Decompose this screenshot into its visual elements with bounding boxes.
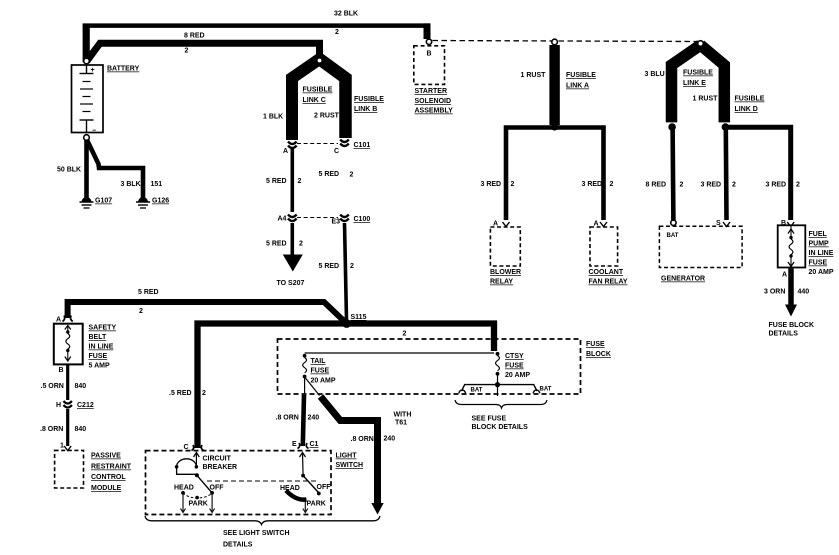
wire 50 BLK to ground G107 [57, 140, 87, 198]
switch blade right (HEAD position) [280, 453, 331, 513]
svg-text:S115: S115 [351, 314, 367, 321]
tail fuse [303, 354, 336, 385]
wire 3 RED to blower relay [481, 181, 515, 188]
svg-text:2: 2 [732, 182, 736, 189]
svg-text:2 RUST: 2 RUST [314, 113, 340, 120]
svg-text:1 RUST: 1 RUST [693, 96, 719, 103]
svg-text:8 RED: 8 RED [646, 182, 667, 189]
svg-text:BELT: BELT [89, 334, 107, 341]
svg-text:WITH: WITH [394, 412, 412, 419]
wire 5 RED from A to A4 [266, 149, 302, 212]
circuit breaker [175, 453, 237, 478]
generator [659, 220, 742, 283]
svg-text:LINK E: LINK E [683, 80, 706, 87]
svg-text:FUSE: FUSE [89, 353, 108, 360]
svg-text:20 AMP: 20 AMP [505, 372, 530, 379]
svg-text:2: 2 [610, 181, 614, 188]
node apex fusible links E/D [698, 41, 704, 47]
svg-text:2: 2 [680, 182, 684, 189]
svg-text:FUSE: FUSE [311, 368, 330, 375]
node apex fusible links C/B [317, 58, 322, 63]
svg-text:5 AMP: 5 AMP [89, 363, 110, 370]
svg-text:RESTRAINT: RESTRAINT [91, 464, 132, 471]
svg-text:B: B [427, 51, 432, 58]
svg-text:840: 840 [75, 426, 87, 433]
svg-text:SEE LIGHT SWITCH: SEE LIGHT SWITCH [223, 530, 290, 537]
wire 8 RED to generator BAT [646, 127, 684, 220]
svg-text:5 RED: 5 RED [266, 178, 287, 185]
svg-text:PARK: PARK [189, 501, 208, 508]
svg-text:+: + [91, 67, 95, 74]
wire 3 RED to fuel pump fuse [725, 127, 800, 220]
svg-text:CIRCUIT: CIRCUIT [203, 456, 232, 463]
svg-text:STARTER: STARTER [415, 88, 448, 95]
svg-text:H: H [56, 402, 61, 409]
wire bus to relays [506, 128, 604, 221]
fusible link D (right leg, 1 RUST) [693, 45, 765, 122]
blower relay [490, 221, 521, 286]
ctsy fuse [496, 352, 531, 396]
wire with T61 .8 ORN 240 [305, 377, 412, 515]
svg-text:−: − [92, 128, 96, 135]
svg-text:1: 1 [60, 443, 64, 450]
svg-text:2: 2 [202, 390, 206, 397]
svg-text:C: C [184, 444, 189, 451]
terminal E C1 light switch [292, 441, 319, 448]
svg-text:2: 2 [350, 172, 354, 179]
wire 5 RED bus to S115 [68, 289, 347, 324]
svg-text:G107: G107 [95, 198, 112, 205]
svg-text:32 BLK: 32 BLK [334, 11, 358, 18]
svg-text:240: 240 [384, 436, 396, 443]
svg-text:.5 ORN: .5 ORN [41, 383, 64, 390]
svg-text:E: E [292, 441, 297, 448]
svg-text:50 BLK: 50 BLK [57, 167, 81, 174]
svg-text:5 RED: 5 RED [266, 241, 287, 248]
svg-text:IN LINE: IN LINE [809, 250, 834, 257]
svg-text:LIGHT: LIGHT [336, 453, 358, 460]
svg-text:840: 840 [75, 383, 87, 390]
svg-text:A: A [283, 148, 288, 155]
svg-text:FUSE: FUSE [586, 341, 605, 348]
svg-text:2: 2 [298, 178, 302, 185]
light switch box [146, 451, 364, 515]
fuse block [278, 339, 611, 394]
svg-text:SOLENOID: SOLENOID [415, 98, 452, 105]
svg-text:PUMP: PUMP [809, 241, 830, 248]
wire 5 RED A4 to arrow [266, 223, 303, 256]
svg-text:E3: E3 [332, 219, 341, 226]
svg-text:RELAY: RELAY [490, 279, 513, 286]
passive restraint control module [55, 443, 132, 493]
svg-text:3 BLU: 3 BLU [645, 71, 665, 78]
dashed net starter to fusible links A and E [433, 41, 698, 42]
svg-text:C212: C212 [77, 402, 94, 409]
svg-text:BLOCK: BLOCK [586, 351, 611, 358]
svg-text:FUSE: FUSE [505, 363, 524, 370]
wire bus S115 to ctsy fuse and light switch [169, 324, 494, 451]
svg-text:DETAILS: DETAILS [223, 542, 253, 549]
wire 3 ORN 440 to fuse block details [764, 269, 814, 338]
node starter solenoid B terminal [426, 39, 431, 44]
wire 5 RED C100 to S115 [319, 171, 355, 320]
fusible link A [521, 39, 597, 125]
svg-text:C100: C100 [354, 216, 371, 223]
wire .5 ORN 840 [41, 365, 87, 401]
coolant fan relay [589, 221, 628, 286]
junction S115 [342, 314, 366, 328]
svg-text:PARK: PARK [307, 501, 326, 508]
svg-text:2: 2 [335, 29, 339, 36]
brace see light switch details [145, 516, 380, 549]
svg-text:IN LINE: IN LINE [89, 344, 114, 351]
svg-text:BATTERY: BATTERY [107, 66, 140, 73]
svg-text:A: A [56, 317, 61, 324]
svg-text:FUSE: FUSE [809, 260, 828, 267]
svg-text:B: B [59, 367, 64, 374]
svg-text:2: 2 [139, 308, 143, 315]
svg-text:1 BLK: 1 BLK [263, 114, 283, 121]
svg-text:FUSIBLE: FUSIBLE [683, 70, 713, 77]
ground G126 [136, 197, 169, 208]
svg-text:LINK C: LINK C [303, 97, 326, 104]
svg-text:2: 2 [403, 331, 407, 338]
node BAT bus junction [495, 382, 500, 387]
ground G107 [80, 197, 113, 208]
svg-text:T61: T61 [395, 420, 407, 427]
svg-text:FUSIBLE: FUSIBLE [354, 96, 384, 103]
fuel pump in line fuse [778, 220, 834, 279]
battery [72, 58, 104, 140]
wire 3 RED to coolant fan relay [582, 181, 614, 188]
svg-text:SEE FUSE: SEE FUSE [472, 416, 507, 423]
svg-text:3 BLK: 3 BLK [121, 181, 141, 188]
node junction below fusible link A [551, 123, 558, 130]
svg-text:HEAD: HEAD [280, 485, 300, 492]
svg-text:240: 240 [308, 415, 320, 422]
svg-text:LINK D: LINK D [735, 106, 758, 113]
wire 3 BLK 151 to ground G126 [87, 140, 162, 198]
svg-text:GENERATOR: GENERATOR [661, 276, 705, 283]
svg-text:G126: G126 [152, 198, 169, 205]
svg-text:5 RED: 5 RED [138, 289, 159, 296]
svg-text:.8 ORN: .8 ORN [40, 426, 63, 433]
svg-text:FUSIBLE: FUSIBLE [735, 96, 765, 103]
node junction below link D [722, 123, 730, 131]
svg-text:FUSIBLE: FUSIBLE [566, 72, 596, 79]
svg-text:CTSY: CTSY [505, 353, 524, 360]
BAT terminals trapezoid [459, 385, 552, 394]
fusible link C (left leg, 1 BLK) [263, 59, 333, 140]
svg-text:MODULE: MODULE [91, 485, 122, 492]
svg-text:HEAD: HEAD [174, 485, 194, 492]
svg-text:2: 2 [299, 241, 303, 248]
svg-text:3 ORN: 3 ORN [764, 289, 785, 296]
svg-text:LINK A: LINK A [566, 83, 589, 90]
wire 32 BLK battery to starter solenoid [83, 11, 431, 63]
svg-text:ASSEMBLY: ASSEMBLY [415, 108, 454, 115]
svg-text:2: 2 [796, 182, 800, 189]
svg-text:A: A [290, 260, 295, 267]
svg-text:OFF: OFF [317, 484, 332, 491]
svg-text:BLOWER: BLOWER [490, 269, 521, 276]
svg-text:COOLANT: COOLANT [589, 269, 624, 276]
svg-text:3 RED: 3 RED [766, 182, 787, 189]
svg-text:3 RED: 3 RED [701, 182, 722, 189]
svg-text:FUEL: FUEL [809, 231, 828, 238]
wire .8 ORN 840 [40, 409, 86, 446]
svg-text:3 RED: 3 RED [582, 181, 603, 188]
svg-text:20 AMP: 20 AMP [311, 378, 336, 385]
safety belt in line fuse [54, 324, 117, 370]
svg-text:8 RED: 8 RED [184, 33, 205, 40]
svg-text:C101: C101 [354, 142, 371, 149]
svg-text:FUSIBLE: FUSIBLE [303, 87, 333, 94]
svg-text:A: A [782, 272, 787, 279]
svg-text:BLOCK DETAILS: BLOCK DETAILS [472, 424, 529, 431]
svg-text:151: 151 [151, 181, 163, 188]
svg-text:LINK B: LINK B [354, 106, 377, 113]
svg-text:3 RED: 3 RED [481, 181, 502, 188]
wire tail fuse feed [305, 352, 494, 354]
svg-text:2: 2 [511, 181, 515, 188]
connector C212 [56, 401, 94, 409]
node junction below link E [668, 123, 676, 131]
wire 3 RED to generator S [701, 127, 737, 220]
svg-text:BAT: BAT [471, 388, 483, 394]
svg-text:FAN RELAY: FAN RELAY [589, 279, 628, 286]
connector A4 / E3 / C100 [278, 215, 371, 226]
svg-text:C1: C1 [310, 441, 319, 448]
svg-text:SAFETY: SAFETY [89, 325, 117, 332]
svg-text:2: 2 [350, 263, 354, 270]
arrow A TO S207 [277, 255, 305, 288]
fusible link B (right leg, 2 RUST) [314, 59, 384, 138]
svg-text:.8 ORN: .8 ORN [276, 415, 299, 422]
starter solenoid assembly [414, 46, 453, 115]
svg-text:20 AMP: 20 AMP [809, 269, 834, 276]
svg-text:CONTROL: CONTROL [91, 474, 126, 481]
switch blade left (OFF position) [174, 475, 224, 512]
svg-text:BAT: BAT [667, 233, 679, 239]
svg-text:TO S207: TO S207 [277, 280, 305, 287]
svg-text:.5 RED: .5 RED [169, 390, 192, 397]
fusible link E (left leg, 3 BLU) [645, 45, 714, 122]
svg-text:TAIL: TAIL [311, 358, 327, 365]
svg-text:OFF: OFF [210, 485, 225, 492]
svg-text:PASSIVE: PASSIVE [91, 453, 121, 460]
svg-text:.8 ORN: .8 ORN [351, 436, 374, 443]
svg-text:1 RUST: 1 RUST [521, 72, 547, 79]
wire .8 ORN 240 tail fuse to light switch E [276, 378, 320, 449]
connector C101 [283, 140, 370, 156]
wire 8 RED battery to fusible links C/B [87, 33, 320, 62]
svg-text:C: C [334, 148, 339, 155]
brace see fuse block details [455, 400, 547, 431]
wire terminal A of safety belt fuse [56, 316, 73, 324]
svg-text:FUSE BLOCK: FUSE BLOCK [769, 322, 815, 329]
svg-text:SWITCH: SWITCH [336, 462, 364, 469]
svg-text:DETAILS: DETAILS [769, 331, 799, 338]
svg-text:5 RED: 5 RED [319, 171, 340, 178]
svg-text:2: 2 [185, 48, 189, 55]
svg-text:A4: A4 [278, 216, 287, 223]
svg-text:440: 440 [798, 289, 810, 296]
svg-text:BAT: BAT [540, 387, 552, 393]
svg-text:5 RED: 5 RED [319, 263, 340, 270]
svg-text:BREAKER: BREAKER [203, 464, 238, 471]
